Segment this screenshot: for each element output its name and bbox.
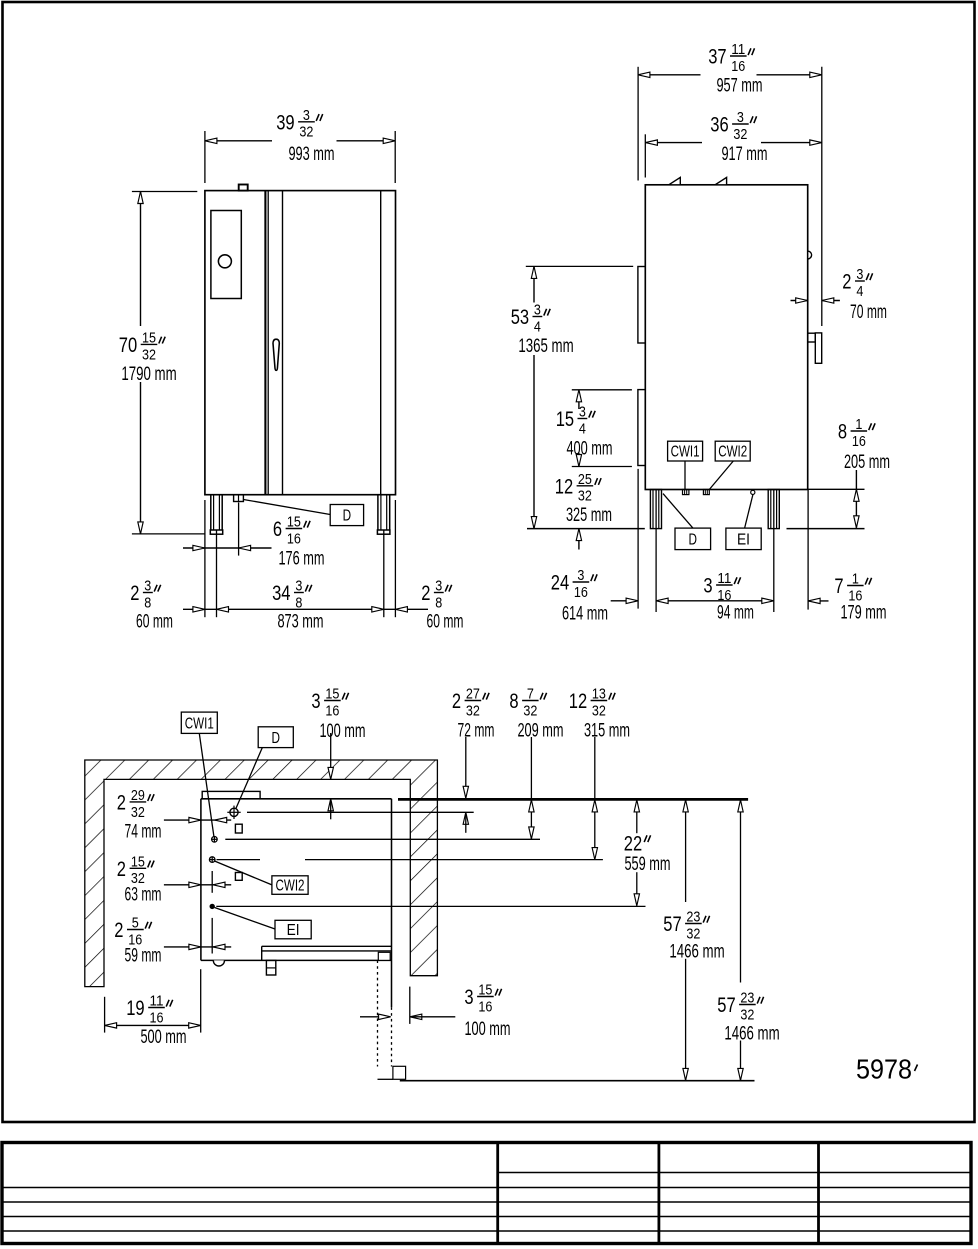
svg-text:179 mm: 179 mm bbox=[840, 603, 886, 624]
svg-text:2: 2 bbox=[421, 582, 430, 605]
side view label EI bbox=[726, 528, 761, 550]
svg-text:CWI2: CWI2 bbox=[276, 878, 305, 895]
svg-text:70: 70 bbox=[119, 334, 137, 357]
svg-text:993 mm: 993 mm bbox=[288, 144, 334, 165]
svg-text:32: 32 bbox=[592, 702, 606, 719]
plan view fitting EI bbox=[210, 904, 215, 909]
side view left foot bbox=[650, 490, 661, 529]
svg-text:59 mm: 59 mm bbox=[125, 946, 162, 967]
plan view rear rail bbox=[202, 791, 260, 798]
plan view open door handle bbox=[393, 1066, 406, 1079]
front view label D leader bbox=[243, 500, 330, 515]
svg-text:60 mm: 60 mm bbox=[136, 612, 173, 633]
svg-text:63 mm: 63 mm bbox=[125, 885, 162, 906]
dimension 3 15/16in 100mm door clearance bbox=[360, 1016, 391, 1018]
svg-text:74 mm: 74 mm bbox=[125, 822, 162, 843]
title block table bbox=[2, 1143, 971, 1244]
svg-text:32: 32 bbox=[142, 346, 156, 363]
svg-text:16: 16 bbox=[852, 433, 866, 450]
dimension 15 3/4in 400mm bbox=[572, 389, 632, 391]
svg-text:100 mm: 100 mm bbox=[464, 1019, 510, 1040]
dimension 37 11/16in 957mm bbox=[638, 74, 701, 76]
side view door pin bbox=[808, 251, 812, 259]
side view CWI1 leader bbox=[684, 461, 686, 490]
side view lower extension lines bbox=[807, 490, 809, 610]
side view CWI2 leader bbox=[709, 461, 733, 490]
dimension 2 15/32in 63mm bbox=[164, 884, 231, 886]
front view drain stub bbox=[234, 495, 244, 502]
side view body front extension line bbox=[644, 134, 646, 177]
side view foot bottom extension bbox=[808, 488, 865, 490]
svg-text:559 mm: 559 mm bbox=[624, 854, 670, 875]
plan view label D bbox=[258, 727, 293, 748]
svg-text:100 mm: 100 mm bbox=[319, 721, 365, 742]
dimension 2 29/32in 74mm bbox=[164, 819, 231, 821]
side view label CWI2 bbox=[715, 441, 750, 461]
dimension 39 3/32in 993mm width bbox=[204, 131, 206, 183]
svg-text:72 mm: 72 mm bbox=[458, 721, 495, 742]
side view hinge block lower bbox=[638, 390, 645, 466]
dimension 8 1/16in 205mm foot height bbox=[855, 470, 857, 528]
svg-text:16: 16 bbox=[150, 1009, 164, 1026]
plan view fitting D crosshair bbox=[230, 808, 238, 816]
plan view fitting square lower bbox=[235, 873, 242, 881]
front view control panel bbox=[211, 211, 241, 299]
side view hinge block upper bbox=[638, 267, 645, 344]
plan view bottom reference line bbox=[400, 1080, 755, 1082]
front view body bbox=[205, 191, 396, 495]
svg-text:16: 16 bbox=[731, 58, 745, 75]
svg-text:8: 8 bbox=[509, 690, 518, 713]
svg-text:2: 2 bbox=[114, 919, 123, 942]
svg-text:12: 12 bbox=[555, 476, 573, 499]
svg-text:8: 8 bbox=[838, 421, 847, 444]
plan view fitting CWI1 line bbox=[225, 838, 540, 840]
plan view fitting CWI1 bbox=[212, 837, 218, 843]
side view D leader bbox=[663, 494, 693, 528]
front view door right edge bbox=[380, 191, 382, 495]
svg-text:53: 53 bbox=[511, 306, 529, 329]
svg-text:CWI2: CWI2 bbox=[718, 444, 747, 461]
svg-text:32: 32 bbox=[740, 1006, 754, 1023]
svg-text:400 mm: 400 mm bbox=[566, 439, 612, 460]
svg-text:94 mm: 94 mm bbox=[717, 603, 754, 624]
svg-text:16: 16 bbox=[574, 584, 588, 601]
plan view label CWI2 bbox=[272, 876, 308, 895]
plan view fitting square upper bbox=[235, 824, 242, 833]
svg-text:2: 2 bbox=[452, 690, 461, 713]
svg-text:D: D bbox=[689, 532, 698, 549]
svg-text:34: 34 bbox=[272, 582, 291, 605]
front view vent cap bbox=[239, 185, 248, 191]
svg-text:CWI1: CWI1 bbox=[671, 444, 700, 461]
side view label CWI1 bbox=[668, 441, 703, 461]
svg-text:22: 22 bbox=[624, 833, 642, 856]
front view right leg bbox=[377, 495, 379, 530]
side view EI fitting bbox=[751, 490, 755, 494]
svg-text:4: 4 bbox=[856, 283, 863, 300]
plan view fitting D line bbox=[247, 811, 474, 813]
svg-text:1365 mm: 1365 mm bbox=[518, 336, 573, 357]
svg-text:2: 2 bbox=[117, 858, 126, 881]
svg-text:957 mm: 957 mm bbox=[716, 76, 762, 97]
svg-text:500 mm: 500 mm bbox=[140, 1027, 186, 1048]
svg-text:1790 mm: 1790 mm bbox=[121, 364, 176, 385]
plan view fitting CWI2 bbox=[209, 857, 215, 863]
svg-text:32: 32 bbox=[466, 702, 480, 719]
svg-text:7: 7 bbox=[834, 575, 843, 598]
svg-text:32: 32 bbox=[523, 702, 537, 719]
plan view label CWI1 bbox=[181, 712, 217, 733]
svg-text:325 mm: 325 mm bbox=[566, 505, 612, 526]
svg-text:70 mm: 70 mm bbox=[850, 302, 887, 323]
dimension 57 23/32in 1466mm first bbox=[685, 800, 687, 902]
svg-text:32: 32 bbox=[578, 488, 592, 505]
plan view fitting CWI2 line bbox=[217, 859, 261, 861]
front view door left edge bbox=[282, 191, 284, 495]
dimension 2 5/16in 59mm bbox=[164, 946, 231, 948]
plan view label CWI2 leader bbox=[215, 861, 272, 885]
dimension 7 1/16in 179mm bbox=[808, 600, 828, 602]
svg-text:16: 16 bbox=[717, 587, 731, 604]
plan view open door dashed bbox=[377, 960, 379, 1066]
svg-text:24: 24 bbox=[551, 572, 570, 595]
side view top hook 2 bbox=[715, 177, 727, 184]
plan view unit outline bbox=[201, 798, 392, 800]
svg-text:EI: EI bbox=[287, 922, 300, 939]
svg-text:32: 32 bbox=[299, 124, 313, 141]
dimension 2 3/8in 60mm and 34 3/8in 873mm feet bbox=[183, 608, 428, 610]
dimension 12 25/32in 325mm bbox=[578, 529, 580, 550]
svg-text:209 mm: 209 mm bbox=[517, 721, 563, 742]
svg-text:D: D bbox=[343, 508, 352, 525]
dimension 53 3/4in 1365mm bbox=[526, 265, 633, 267]
svg-text:2: 2 bbox=[842, 271, 851, 294]
svg-text:917 mm: 917 mm bbox=[721, 144, 767, 165]
plan view label D leader bbox=[236, 748, 262, 809]
plan view label EI bbox=[275, 920, 311, 939]
svg-text:315 mm: 315 mm bbox=[584, 721, 630, 742]
svg-text:EI: EI bbox=[737, 532, 750, 549]
svg-text:2: 2 bbox=[130, 582, 139, 605]
dimension 70 15/32in 1790mm height bbox=[132, 191, 197, 193]
svg-text:39: 39 bbox=[276, 112, 294, 135]
plan view front bump bbox=[213, 960, 224, 966]
plan view fitting EI line bbox=[216, 905, 645, 907]
plan view walls hatched bbox=[85, 760, 438, 987]
svg-text:1466 mm: 1466 mm bbox=[724, 1024, 779, 1045]
dimension 57 23/32in 1466mm second bbox=[740, 800, 742, 983]
plan view rear reference line bbox=[398, 798, 748, 801]
side view door handle bbox=[808, 333, 816, 342]
svg-text:32: 32 bbox=[686, 925, 700, 942]
plan view door hinge block bbox=[266, 960, 275, 975]
svg-text:8: 8 bbox=[295, 594, 302, 611]
dimension 2 27/32in 72mm bbox=[465, 737, 467, 798]
dimension 19 11/16in 500mm bbox=[104, 997, 106, 1033]
svg-text:36: 36 bbox=[710, 114, 728, 137]
front view door gap line bbox=[264, 191, 266, 495]
front view knob bbox=[218, 255, 231, 268]
svg-text:3: 3 bbox=[703, 575, 712, 598]
side view ground line bbox=[527, 528, 645, 530]
dimension 24 3/16in 614mm and 3 11/16in 94mm bbox=[611, 600, 638, 602]
side view handle outer extension line bbox=[821, 67, 823, 326]
front view door handle bbox=[273, 339, 279, 370]
svg-text:16: 16 bbox=[478, 998, 492, 1015]
dimension 8 7/32in 209mm bbox=[530, 737, 532, 839]
svg-text:176 mm: 176 mm bbox=[278, 549, 324, 570]
svg-text:5978: 5978 bbox=[856, 1054, 912, 1085]
svg-text:4: 4 bbox=[579, 420, 586, 437]
svg-text:57: 57 bbox=[717, 994, 735, 1017]
svg-text:16: 16 bbox=[325, 702, 339, 719]
svg-text:37: 37 bbox=[708, 46, 726, 69]
svg-text:19: 19 bbox=[126, 997, 144, 1020]
side view CWI1 fitting bbox=[683, 490, 689, 495]
svg-text:16: 16 bbox=[287, 530, 301, 547]
side view right foot bbox=[768, 490, 779, 529]
svg-text:32: 32 bbox=[131, 804, 145, 821]
svg-text:3: 3 bbox=[464, 986, 473, 1009]
side view top hook 1 bbox=[669, 177, 681, 184]
svg-text:CWI1: CWI1 bbox=[185, 715, 214, 732]
svg-text:1466 mm: 1466 mm bbox=[669, 942, 724, 963]
front view left leg bbox=[210, 495, 212, 530]
svg-text:614 mm: 614 mm bbox=[562, 604, 608, 625]
dimension 36 3/32in 917mm bbox=[645, 142, 702, 144]
svg-text:12: 12 bbox=[569, 690, 587, 713]
svg-text:4: 4 bbox=[534, 318, 541, 335]
dimension 22in 559mm bbox=[636, 800, 638, 833]
plan view label EI leader bbox=[215, 908, 275, 930]
svg-text:8: 8 bbox=[435, 594, 442, 611]
plan view label CWI1 leader bbox=[199, 733, 214, 836]
front view label D bbox=[330, 505, 363, 526]
svg-text:60 mm: 60 mm bbox=[427, 612, 464, 633]
plan view door front bbox=[262, 945, 391, 947]
svg-text:205 mm: 205 mm bbox=[844, 452, 890, 473]
dimension 3 15/16in 100mm top clearance bbox=[330, 733, 332, 779]
dimension 2 3/4in 70mm door bbox=[791, 300, 808, 302]
dimension 12 13/32in 315mm bbox=[594, 737, 596, 860]
side view body bbox=[645, 185, 807, 490]
svg-text:32: 32 bbox=[733, 126, 747, 143]
side view EI leader bbox=[745, 495, 753, 528]
front view bottom extension lines bbox=[204, 500, 206, 617]
svg-text:3: 3 bbox=[311, 690, 320, 713]
svg-text:D: D bbox=[272, 730, 281, 747]
svg-text:2: 2 bbox=[117, 792, 126, 815]
dimension 6 15/16in 176mm drain offset bbox=[183, 547, 272, 549]
plan view door handle recess bbox=[378, 952, 390, 960]
svg-text:15: 15 bbox=[556, 408, 574, 431]
side view rear face extension line bbox=[637, 67, 639, 181]
svg-text:8: 8 bbox=[144, 594, 151, 611]
side view CWI2 fitting bbox=[703, 490, 709, 495]
svg-text:57: 57 bbox=[663, 913, 681, 936]
side view label D bbox=[675, 528, 711, 550]
svg-text:873 mm: 873 mm bbox=[277, 612, 323, 633]
svg-text:6: 6 bbox=[273, 518, 282, 541]
